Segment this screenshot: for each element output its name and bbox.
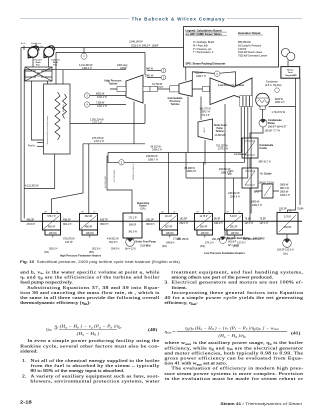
svg-text:Fuel In: Fuel In xyxy=(28,145,36,148)
svg-text:362.0 H: 362.0 H xyxy=(49,248,58,251)
svg-text:5.76 P: 5.76 P xyxy=(284,216,291,219)
svg-text:Fig. 10 Subcritical pressure,: Fig. 10 Subcritical pressure, 2400 psig … xyxy=(20,259,181,263)
svg-text:10F DC: 10F DC xyxy=(166,232,175,235)
svg-text:1075.3 H: 1075.3 H xyxy=(218,148,228,151)
svg-text:High Pressure Feedwater Heater: High Pressure Feedwater Heaters xyxy=(60,254,102,258)
svg-text:(Ha − Hd ): (Ha − Hd ) xyxy=(77,332,100,336)
svg-text:10F DC: 10F DC xyxy=(49,232,58,235)
svg-text:290,158 W: 290,158 W xyxy=(212,238,224,241)
svg-text:344.8 H: 344.8 H xyxy=(166,242,175,245)
svg-text:40.4 P: 40.4 P xyxy=(165,215,172,218)
svg-text:1.: 1. xyxy=(22,358,26,363)
svg-text:163.9F: 163.9F xyxy=(284,226,292,229)
svg-text:3,946,149 W: 3,946,149 W xyxy=(129,41,143,44)
svg-text:266.8 P ΔH=0.97: 266.8 P ΔH=0.97 xyxy=(268,125,287,128)
svg-text:354.5 H: 354.5 H xyxy=(111,248,120,251)
svg-text:The Babcock & Wilcox Company: The Babcock & Wilcox Company xyxy=(132,17,225,22)
svg-text:498.3P: 498.3P xyxy=(85,226,93,229)
svg-text:NF: NF xyxy=(45,211,47,213)
svg-text:171.9F: 171.9F xyxy=(173,238,181,241)
svg-text:70.8H: 70.8H xyxy=(297,208,304,211)
svg-text:1104.3 H: 1104.3 H xyxy=(230,195,240,198)
svg-text:1086.3 H: 1086.3 H xyxy=(187,170,197,173)
svg-text:1317.2 H: 1317.2 H xyxy=(97,105,107,108)
svg-text:SPE: SPE xyxy=(254,191,259,194)
svg-text:3.: 3. xyxy=(164,280,168,285)
svg-text:419.7P: 419.7P xyxy=(65,241,73,244)
svg-text:1396.7 H: 1396.7 H xyxy=(201,112,211,114)
svg-text:TD: TD xyxy=(173,211,176,213)
svg-text:2.: 2. xyxy=(22,374,26,379)
svg-text:980 W: 980 W xyxy=(146,68,154,71)
svg-text:1052.1 H: 1052.1 H xyxy=(275,101,285,104)
svg-text:10F DC: 10F DC xyxy=(201,232,210,235)
svg-text:470.8 H: 470.8 H xyxy=(27,223,36,226)
svg-text:347 PSIG 440F: 347 PSIG 440F xyxy=(105,175,107,188)
svg-text:NF: NF xyxy=(227,211,229,213)
svg-text:492.0F: 492.0F xyxy=(48,226,56,229)
svg-text:1086.3 H: 1086.3 H xyxy=(221,171,231,174)
svg-text:Boiler Feed Pump: Boiler Feed Pump xyxy=(136,241,157,244)
svg-text:Electrical generators and moto: Electrical generators and motors are not… xyxy=(172,279,304,285)
svg-text:140,842 W 1104.3 H: 140,842 W 1104.3 H xyxy=(133,163,135,180)
svg-text:(7th): (7th) xyxy=(44,251,49,254)
svg-text:(5th): (5th) xyxy=(146,245,151,248)
svg-text:4,211,300 W: 4,211,300 W xyxy=(25,184,39,187)
svg-text:1462.4 H: 1462.4 H xyxy=(82,67,92,70)
svg-text:Pump: Pump xyxy=(268,122,275,125)
svg-text:TD: TD xyxy=(93,211,96,213)
svg-text:171.2 P: 171.2 P xyxy=(128,217,137,220)
svg-text:NF: NF xyxy=(162,211,164,213)
svg-text:576.7 P: 576.7 P xyxy=(47,215,56,218)
svg-text:127.1 H: 127.1 H xyxy=(260,222,269,225)
svg-text:262.4P: 262.4P xyxy=(85,215,93,218)
svg-text:14,890 kW: 14,890 kW xyxy=(215,135,227,137)
svg-text:thermodynamic efficiency (ηth): thermodynamic efficiency (ηth): xyxy=(20,300,91,306)
svg-text:1317.2 H: 1317.2 H xyxy=(97,96,107,99)
svg-text:Low Pressure Feedwater Heaters: Low Pressure Feedwater Heaters xyxy=(204,251,245,255)
svg-text:(2.5 in. Hg Abs): (2.5 in. Hg Abs) xyxy=(265,84,282,87)
svg-text:NF: NF xyxy=(82,211,84,213)
svg-text:232.1 H: 232.1 H xyxy=(180,222,189,225)
svg-text:163.9F 131.5 H: 163.9F 131.5 H xyxy=(277,249,294,252)
svg-text:Air: Air xyxy=(37,71,40,74)
svg-text:Turbine: Turbine xyxy=(109,83,119,86)
svg-text:75.3P: 75.3P xyxy=(245,218,252,221)
svg-text:1052.1 H: 1052.1 H xyxy=(280,194,290,197)
svg-text:350.5 H: 350.5 H xyxy=(100,223,109,226)
svg-text:A M P: A M P xyxy=(203,127,206,133)
svg-text:=: = xyxy=(173,330,176,334)
svg-text:(41): (41) xyxy=(291,330,301,336)
svg-text:96F, 83.7 H: 96F, 83.7 H xyxy=(259,161,271,164)
svg-text:104.1F, 72.9 H: 104.1F, 72.9 H xyxy=(259,182,275,185)
svg-text:361.3 H: 361.3 H xyxy=(109,241,118,244)
svg-text:Steam: Steam xyxy=(287,68,293,71)
svg-text:NF: NF xyxy=(197,211,199,213)
svg-text:10F DC: 10F DC xyxy=(86,232,95,235)
svg-text:ηnet: ηnet xyxy=(164,330,171,334)
svg-text:TD: TD xyxy=(208,211,211,213)
svg-text:Economizer/Furnace/Superheater: Economizer/Furnace/Superheater xyxy=(46,115,49,144)
svg-text:168.2 H: 168.2 H xyxy=(214,222,223,225)
svg-text:347 PSIG 440F: 347 PSIG 440F xyxy=(114,169,116,182)
svg-text:ηgηb (Ha − Hd ) − [v1 (P1 − Pb: ηgηb (Ha − Hd ) − [v1 (P1 − Pb )/ηpηm ] … xyxy=(185,327,279,331)
svg-text:Legend: Calculations Based: Legend: Calculations Based xyxy=(186,28,222,32)
svg-text:TD: TD xyxy=(238,211,241,213)
svg-text:200.4F: 200.4F xyxy=(200,226,208,229)
svg-text:Low Pressure Turbine: Low Pressure Turbine xyxy=(218,84,245,87)
svg-text:(Ha − Hd )/ηb: (Ha − Hd )/ηb xyxy=(218,335,246,339)
svg-text:Fan: Fan xyxy=(36,64,40,66)
svg-text:NF: NF xyxy=(279,210,281,212)
svg-text:162.5P: 162.5P xyxy=(180,218,188,221)
svg-text:1086.7 H: 1086.7 H xyxy=(148,158,158,161)
svg-text:7925 kW Generator Losses: 7925 kW Generator Losses xyxy=(238,55,268,58)
svg-text:TD: TD xyxy=(289,210,292,212)
svg-text:166.3F: 166.3F xyxy=(226,238,234,241)
svg-text:Pump: Pump xyxy=(217,128,224,130)
svg-text:1436.2 H: 1436.2 H xyxy=(152,149,162,152)
svg-text:369.0F: 369.0F xyxy=(129,224,137,227)
svg-text:(8th): (8th) xyxy=(89,251,94,254)
svg-text:Turbine: Turbine xyxy=(216,131,225,133)
svg-text:109.0F, 77.7 H: 109.0F, 77.7 H xyxy=(265,130,281,133)
svg-text:274.1 H: 274.1 H xyxy=(205,242,214,245)
svg-text:sidered:: sidered: xyxy=(20,349,38,354)
svg-text:1052.1 H: 1052.1 H xyxy=(252,204,262,207)
svg-text:384.1 H: 384.1 H xyxy=(63,223,72,226)
svg-text:H₂ Cooler: H₂ Cooler xyxy=(261,173,272,176)
svg-text:(1st): (1st) xyxy=(283,253,288,256)
svg-text:on 1967 ASME Steam Tables: on 1967 ASME Steam Tables xyxy=(186,32,223,36)
svg-text:267.9F: 267.9F xyxy=(165,226,173,229)
svg-text:Heater: Heater xyxy=(35,74,41,77)
svg-text:(40): (40) xyxy=(148,327,158,333)
svg-text:1515.5 H 546.2 P 1000F: 1515.5 H 546.2 P 1000F xyxy=(131,44,159,47)
svg-text:SPE: Steam Packing Exhauster: SPE: Steam Packing Exhauster xyxy=(186,62,226,66)
svg-text:165.3F: 165.3F xyxy=(230,226,238,229)
svg-text:98.3P: 98.3P xyxy=(214,218,221,221)
svg-text:T = Temperature, F: T = Temperature, F xyxy=(193,51,214,54)
svg-text:blowers, environmental protect: blowers, environmental protection system… xyxy=(31,379,160,384)
svg-text:ΔH = 12.6: ΔH = 12.6 xyxy=(125,248,136,251)
svg-text:Boiler Feed: Boiler Feed xyxy=(214,125,227,127)
svg-text:Air In: Air In xyxy=(21,42,27,45)
svg-text:Steam 41 / Thermodynamics of S: Steam 41 / Thermodynamics of Steam xyxy=(220,401,302,405)
svg-text:10F DC: 10F DC xyxy=(231,232,240,235)
svg-text:Cooler: Cooler xyxy=(260,147,268,150)
svg-text:1396.7 H: 1396.7 H xyxy=(196,75,206,78)
svg-text:TD: TD xyxy=(56,211,59,213)
svg-text:1317.2 H: 1317.2 H xyxy=(92,121,102,124)
svg-text:2-18: 2-18 xyxy=(20,400,32,405)
svg-text:Condenser: Condenser xyxy=(234,153,246,156)
svg-text:75.5P: 75.5P xyxy=(260,218,267,221)
svg-text:1000F: 1000F xyxy=(120,67,127,70)
svg-text:(3rd): (3rd) xyxy=(200,245,205,248)
svg-text:1,744,971 W: 1,744,971 W xyxy=(272,111,286,114)
svg-text:Seal: Seal xyxy=(288,72,293,74)
svg-text:171.2 P: 171.2 P xyxy=(202,115,210,117)
svg-text:Regulator: Regulator xyxy=(285,74,295,77)
svg-text:350.5 H: 350.5 H xyxy=(146,223,155,226)
svg-text:2891 W: 2891 W xyxy=(145,75,154,78)
svg-text:11.75 P: 11.75 P xyxy=(199,215,207,218)
svg-text:341.9 H: 341.9 H xyxy=(128,231,137,234)
svg-text:(DA): (DA) xyxy=(141,207,146,210)
svg-text:163.8F: 163.8F xyxy=(255,238,263,241)
svg-text:ηt (Ha − Hb ) − va (Pa − Pb )/: ηt (Ha − Hb ) − va (Pa − Pb )/ηp xyxy=(55,325,122,329)
svg-text:ηth: ηth xyxy=(46,327,52,332)
svg-text:127.2 H: 127.2 H xyxy=(245,222,254,225)
svg-text:(4th): (4th) xyxy=(162,245,167,248)
svg-text:Turbine: Turbine xyxy=(171,103,181,106)
svg-text:(2nd): (2nd) xyxy=(233,245,239,248)
svg-text:5.16 P: 5.16 P xyxy=(230,215,237,218)
svg-text:Rankine cycle, several other f: Rankine cycle, several other factors mus… xyxy=(20,343,159,349)
svg-text:Generator Output: Generator Output xyxy=(238,31,261,35)
svg-text:1317.2 H: 1317.2 H xyxy=(94,140,104,143)
svg-text:in the evaluation must be made: in the evaluation must be made for steam… xyxy=(164,375,303,381)
svg-text:Reheater: Reheater xyxy=(62,104,65,112)
